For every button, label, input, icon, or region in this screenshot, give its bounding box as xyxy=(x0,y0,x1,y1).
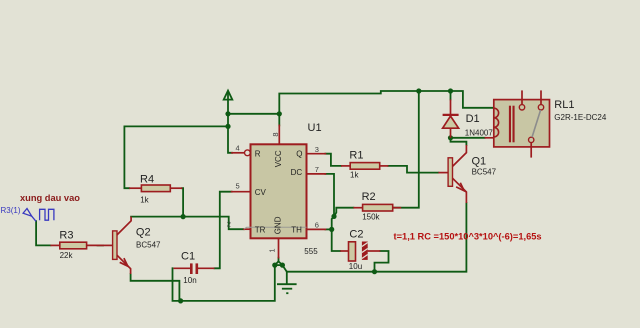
diode D1 1N4007 xyxy=(443,100,459,138)
wire ground bus to pin1 junction xyxy=(181,265,275,301)
svg-text:10n: 10n xyxy=(183,276,196,285)
svg-text:R1: R1 xyxy=(349,150,363,162)
svg-text:CV: CV xyxy=(255,188,267,197)
resistor R2 xyxy=(353,204,401,211)
svg-text:4: 4 xyxy=(236,144,240,153)
wire R4 right to collector node xyxy=(182,188,183,216)
svg-text:7: 7 xyxy=(315,165,319,174)
svg-text:22k: 22k xyxy=(60,251,74,260)
junction node pin8 xyxy=(277,111,282,116)
555 IC pin stubs (red) xyxy=(232,125,326,257)
555 pin names inside IC xyxy=(255,149,303,234)
wire D1 anode to relay coil xyxy=(451,137,485,139)
wire input source to R3 xyxy=(36,221,50,245)
text labels: reference designators xyxy=(59,99,574,263)
svg-text:R: R xyxy=(255,149,261,158)
svg-text:Q: Q xyxy=(296,149,302,158)
pin 3 stub xyxy=(307,153,326,155)
wire VCC arrow to pin8 node xyxy=(228,113,279,115)
svg-text:R3(1): R3(1) xyxy=(1,206,21,215)
junction node Q2 emitter/C1 xyxy=(178,298,183,303)
svg-text:2: 2 xyxy=(227,220,231,229)
resistor R3 xyxy=(50,242,103,249)
junction node C2/ground bus xyxy=(372,269,377,274)
capacitor C1 xyxy=(174,263,215,274)
svg-text:6: 6 xyxy=(315,221,319,230)
svg-text:10u: 10u xyxy=(349,262,362,271)
wire Q2 collector node to pin 2 xyxy=(131,217,244,230)
wire D1 cathode to rail xyxy=(450,91,452,100)
svg-text:BC547: BC547 xyxy=(136,240,161,249)
pulse waveform xyxy=(40,209,54,220)
wire pin8 riser and top rail to relay xyxy=(279,91,493,114)
junction node pin7/R2 xyxy=(331,214,336,219)
pin 2 stub xyxy=(244,228,251,230)
core bars xyxy=(509,106,511,143)
svg-text:1: 1 xyxy=(268,248,277,252)
junction node rail/R2 xyxy=(416,88,421,93)
capacitor C2 (polarized) xyxy=(340,242,380,262)
wire arrow node down to reset node xyxy=(227,114,229,127)
pin 5 stub xyxy=(232,191,251,193)
wire C1 left down to ground bus xyxy=(173,268,181,301)
power arrow VCC xyxy=(224,91,233,114)
resistor R1 xyxy=(341,163,388,170)
pin numbers xyxy=(227,132,319,252)
wire left rail to R4 xyxy=(124,126,228,188)
wire R3 to Q2 base xyxy=(98,244,104,246)
svg-text:R2: R2 xyxy=(362,191,376,203)
junction node D1 anode/relay coil/Q1 collector xyxy=(448,135,453,140)
junction node pin1 left xyxy=(272,263,277,268)
svg-text:BC547: BC547 xyxy=(472,167,497,176)
text labels: values xyxy=(60,113,607,285)
svg-text:150k: 150k xyxy=(362,213,380,222)
svg-text:1k: 1k xyxy=(350,170,359,179)
svg-text:TR: TR xyxy=(255,225,266,234)
svg-text:TH: TH xyxy=(291,225,302,234)
wire R1 to Q1 base xyxy=(388,166,438,173)
svg-text:D1: D1 xyxy=(466,113,480,125)
svg-text:3: 3 xyxy=(315,145,319,154)
svg-text:VCC: VCC xyxy=(274,150,283,167)
op: 555 IC body U1 xyxy=(251,144,307,238)
svg-text:RL1: RL1 xyxy=(554,99,574,111)
relay RL1 xyxy=(485,90,550,157)
svg-text:R4: R4 xyxy=(140,174,154,186)
wire R2 right to VCC rail xyxy=(393,91,419,208)
input probe R3(1) xyxy=(23,209,54,222)
wire reset node to pin 4 xyxy=(228,126,232,152)
wire pin8 stub green part xyxy=(278,114,280,126)
wire pin 6 xyxy=(325,228,331,230)
svg-text:Q2: Q2 xyxy=(136,227,151,239)
junction node VCC-arrow xyxy=(225,111,230,116)
junction node rail/D1 cathode xyxy=(448,88,453,93)
wire Q2 emitter down xyxy=(131,274,180,301)
svg-text:Q1: Q1 xyxy=(472,156,487,168)
svg-text:C2: C2 xyxy=(349,229,363,241)
junction node reset/R4 xyxy=(225,124,230,129)
svg-text:R3: R3 xyxy=(59,230,73,242)
wire junction to ground symbol and right bus xyxy=(282,203,466,272)
transistor Q1 BC547 xyxy=(438,145,466,203)
wire pin 3 to R1 xyxy=(325,154,341,166)
pin 7 stub xyxy=(307,173,326,175)
svg-text:555: 555 xyxy=(304,247,318,256)
resistor R4 xyxy=(129,185,182,192)
ground symbol xyxy=(277,284,297,293)
wire pin7 node down to pin6 node and C2 xyxy=(332,216,341,251)
svg-text:GND: GND xyxy=(273,216,282,234)
svg-text:DC: DC xyxy=(291,168,303,177)
pin 8 stub xyxy=(278,125,280,144)
wire pin1 green tail xyxy=(275,258,279,266)
svg-text:xung dau vao: xung dau vao xyxy=(20,193,80,203)
svg-text:8: 8 xyxy=(271,132,280,136)
svg-text:5: 5 xyxy=(236,182,240,191)
junction node pin6 xyxy=(329,227,334,232)
contact circles xyxy=(519,105,524,110)
wire D1 anode to Q1 collector xyxy=(451,138,467,145)
pin 4 stub xyxy=(232,152,244,154)
switch arm xyxy=(532,110,541,137)
wire R2 left jog xyxy=(334,208,353,217)
junction node Q2 collector xyxy=(181,214,186,219)
svg-text:t=1,1 RC =150*10^3*10^(-6)=1,6: t=1,1 RC =150*10^3*10^(-6)=1,65s xyxy=(394,232,542,242)
svg-text:G2R-1E-DC24: G2R-1E-DC24 xyxy=(554,113,607,122)
svg-text:1k: 1k xyxy=(140,196,149,205)
pin 4 inversion bubble xyxy=(245,150,251,156)
svg-text:U1: U1 xyxy=(308,122,322,134)
transistor Q2 BC547 xyxy=(103,217,131,274)
pin 6 stub xyxy=(307,228,326,230)
gray artifact line across IC pins 2-6 xyxy=(244,227,307,229)
coil bottom pin xyxy=(485,137,494,139)
svg-text:C1: C1 xyxy=(181,251,195,263)
svg-text:1N4007: 1N4007 xyxy=(465,129,494,138)
wire pin 7 down xyxy=(325,174,334,217)
wire pin 5 CV to C1 xyxy=(215,192,232,269)
wire C2 right to bus xyxy=(375,251,389,272)
pin 1 stub xyxy=(278,238,280,257)
junction node pin1 right xyxy=(280,263,285,268)
contact pins xyxy=(521,90,523,104)
coil xyxy=(494,108,499,137)
